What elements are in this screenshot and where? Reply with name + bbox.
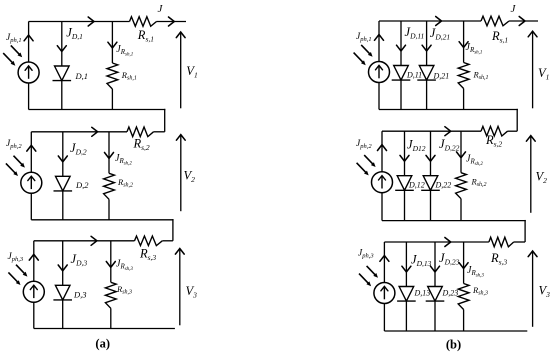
photon illumination arrows (a) cell 3 <box>8 265 27 285</box>
wire: (b) cell 2 left branch <box>381 131 383 172</box>
svg-text:Jph,2: Jph,2 <box>6 139 22 150</box>
wire: (b) cell 2 top rail <box>382 130 481 132</box>
resistor Rs,3 (a) series <box>135 236 163 246</box>
arrow: current JRsh,1 direction (a) <box>108 42 117 48</box>
svg-text:Jph,1: Jph,1 <box>356 32 372 43</box>
wire: (b) cell 1 bottom rail <box>379 109 518 111</box>
current source Jph,3 (a) <box>23 281 44 302</box>
resistor Rsh,1 (a) shunt <box>107 63 118 89</box>
voltage arrow V3 (a) <box>179 250 181 326</box>
current source Jph,1 (a) <box>18 62 39 83</box>
diode D,23 (b) <box>426 287 445 302</box>
svg-text:JD,2: JD,2 <box>70 141 87 157</box>
arrow: (b) cell 1 current direction on top rail <box>436 17 442 26</box>
svg-text:JD,23: JD,23 <box>439 251 460 267</box>
svg-text:D,1: D,1 <box>75 71 89 81</box>
photon illumination arrows (b) cell 2 <box>357 155 376 175</box>
wire: (b) cell 1 left branch <box>378 21 380 62</box>
wire: (a) cell 3 diode branch 1 <box>62 241 64 329</box>
svg-text:Rsh,1: Rsh,1 <box>121 70 137 82</box>
resistor Rs,1 (b) series <box>481 16 509 26</box>
photon illumination arrows (b) cell 3 <box>359 266 378 286</box>
wire: (b) cell 3 left branch <box>383 242 385 283</box>
photon illumination arrows (a) cell 2 <box>6 156 25 176</box>
svg-text:V3: V3 <box>186 284 198 300</box>
voltage arrow V3 (b) <box>532 252 534 327</box>
arrow: (a) cell 1 current direction on top rail <box>88 17 94 26</box>
arrow: current JD,12 direction (b) <box>400 155 409 161</box>
resistor Rs,1 (a) series <box>130 17 157 27</box>
arrowhead: (a) output current J <box>169 17 175 26</box>
svg-text:JRsh,2: JRsh,2 <box>466 154 483 168</box>
arrow: (b) photocurrent Jph,1 direction <box>375 35 384 41</box>
svg-text:Rsh,1: Rsh,1 <box>473 70 489 82</box>
svg-text:Rsh,2: Rsh,2 <box>117 177 133 189</box>
wire: (b) cell 2 shunt branch <box>460 131 462 173</box>
arrowhead: (b) output current J <box>519 17 525 26</box>
resistor Rsh,2 (a) shunt <box>104 173 115 199</box>
diode D,2 (a) <box>54 176 73 191</box>
wire: (a) cell 3 shunt branch <box>110 241 112 282</box>
wire: (b) cell 3 top rail <box>384 241 489 243</box>
svg-text:Rsh,3: Rsh,3 <box>116 284 132 296</box>
svg-text:Jph,1: Jph,1 <box>6 33 22 44</box>
svg-text:JRsh,3: JRsh,3 <box>467 265 484 279</box>
svg-text:Jph,3: Jph,3 <box>8 252 24 263</box>
svg-text:JD,13: JD,13 <box>411 253 432 269</box>
svg-text:JD,21: JD,21 <box>430 26 450 42</box>
svg-text:JD,11: JD,11 <box>405 25 425 41</box>
wire: (a) cell 2 diode branch 1 <box>62 132 64 220</box>
svg-text:Jph,2: Jph,2 <box>356 139 372 150</box>
wire: (b) cell 1 diode branch 2 <box>426 21 428 110</box>
arrow: (a) photocurrent Jph,1 direction <box>24 35 33 41</box>
current source Jph,2 (a) <box>21 172 42 193</box>
diode D,12 (b) <box>395 176 414 191</box>
arrow: current JRsh,2 direction (a) <box>105 153 114 159</box>
voltage arrow V2 (a) <box>180 136 182 212</box>
wire: (a) cell 1 diode branch 1 <box>61 22 63 110</box>
svg-text:Jph,3: Jph,3 <box>358 249 374 260</box>
arrow: (b) photocurrent Jph,3 direction <box>380 256 389 262</box>
voltage arrow V1 (b) <box>532 32 534 108</box>
svg-text:V3: V3 <box>539 284 550 300</box>
svg-text:D,13: D,13 <box>414 289 431 298</box>
arrow: current JD,11 direction (b) <box>397 45 406 51</box>
arrow: current JD,3 direction (a) <box>58 265 67 271</box>
svg-text:JRsh,3: JRsh,3 <box>116 259 133 273</box>
svg-text:V2: V2 <box>536 170 548 186</box>
arrow: current JD,23 direction (b) <box>431 266 440 272</box>
wire: (a) cell 2 top rail <box>31 131 127 133</box>
resistor Rs,3 (b) series <box>489 237 514 247</box>
wire: (a) cell 2 bottom rail <box>31 219 173 221</box>
svg-text:JD,22: JD,22 <box>439 137 460 153</box>
wire: (b) cell 1 shunt branch <box>463 21 465 63</box>
svg-text:(a): (a) <box>95 337 110 351</box>
arrow: current JD,21 direction (b) <box>422 45 431 51</box>
photon illumination arrows (a) cell 1 <box>3 45 22 65</box>
svg-text:D,23: D,23 <box>442 289 459 298</box>
svg-text:J: J <box>158 3 164 15</box>
arrow: current JRsh,3 direction (b) <box>459 263 468 269</box>
arrow: (b) photocurrent Jph,2 direction <box>378 145 387 151</box>
wire: (a) cell 1 shunt branch <box>111 22 113 64</box>
diode D,11 (b) <box>392 66 411 81</box>
diode D,3 (a) <box>53 285 72 300</box>
wire: (b) interconnect cell1-cell2 <box>516 109 518 131</box>
svg-text:Rs,2: Rs,2 <box>133 137 150 153</box>
svg-text:V2: V2 <box>184 169 196 185</box>
arrow: (a) cell 3 current direction on top rail <box>91 236 97 245</box>
svg-text:(b): (b) <box>446 338 461 352</box>
wire: (b) cell 2 bottom rail <box>382 220 526 222</box>
wire: (a) cell 2 shunt branch <box>108 132 110 174</box>
arrow: (a) photocurrent Jph,2 direction <box>27 145 36 151</box>
svg-text:JD,3: JD,3 <box>71 252 88 268</box>
resistor Rsh,3 (a) shunt <box>105 282 116 308</box>
svg-text:Rsh,3: Rsh,3 <box>472 285 488 297</box>
diode D,1 (a) <box>53 66 72 81</box>
arrow: current JD,1 direction (a) <box>57 46 66 52</box>
svg-text:D,21: D,21 <box>433 72 450 81</box>
current source Jph,3 (b) <box>374 283 395 304</box>
arrow: current JD,2 direction (a) <box>58 156 67 162</box>
svg-text:D,2: D,2 <box>75 180 89 190</box>
arrow: current JRsh,2 direction (b) <box>457 152 466 158</box>
wire: (b) cell 3 shunt branch <box>463 242 465 284</box>
wire: (a) cell 1 top rail <box>29 21 130 23</box>
svg-text:Rsh,2: Rsh,2 <box>471 177 487 189</box>
resistor Rsh,3 (b) shunt <box>458 284 469 310</box>
arrow: current JRsh,3 direction (a) <box>106 262 115 268</box>
resistor Rs,2 (b) series <box>481 126 508 136</box>
wire: (b) cell 1 diode branch 1 <box>400 21 402 110</box>
resistor Rsh,1 (b) shunt <box>458 63 469 89</box>
wire: (a) interconnect cell2-cell3 <box>172 219 174 241</box>
wire: (b) cell 2 diode branch 2 <box>430 131 432 220</box>
arrow: (b) cell 3 current direction on top rail <box>445 238 451 247</box>
wire: (b) cell 1 top rail <box>379 20 481 22</box>
svg-text:JRsh,1: JRsh,1 <box>116 44 133 58</box>
wire: (a) cell 1 left branch <box>28 22 30 63</box>
wire: (a) cell 3 top rail <box>34 240 135 242</box>
svg-text:Rs,3: Rs,3 <box>139 247 156 263</box>
resistor Rsh,2 (b) shunt <box>456 173 467 199</box>
wire: (a) cell 1 bottom rail <box>29 109 166 111</box>
photon illumination arrows (b) cell 1 <box>354 45 373 65</box>
svg-text:JD,1: JD,1 <box>66 25 83 41</box>
wire: (b) cell 3 bottom rail <box>384 330 527 332</box>
wire: (a) cell 2 left branch <box>30 132 32 173</box>
wire: (a) cell 3 bottom rail <box>34 328 175 330</box>
svg-text:V1: V1 <box>538 66 549 82</box>
voltage arrow V2 (b) <box>530 137 532 213</box>
svg-text:V1: V1 <box>186 64 197 80</box>
svg-text:D,12: D,12 <box>408 181 425 190</box>
wire: (b) cell 2 diode branch 1 <box>404 131 406 220</box>
svg-text:Rs,3: Rs,3 <box>490 251 507 267</box>
wire: (a) cell 3 left branch <box>33 241 35 281</box>
arrow: current JD,22 direction (b) <box>426 155 435 161</box>
svg-text:D,22: D,22 <box>435 181 452 190</box>
svg-text:J: J <box>511 3 517 15</box>
diode D,21 (b) <box>417 66 436 81</box>
resistor Rs,2 (a) series <box>127 127 154 137</box>
svg-text:D,3: D,3 <box>73 290 87 300</box>
arrow: current JD,13 direction (b) <box>402 266 411 272</box>
wire: (b) cell 3 diode branch 2 <box>434 242 436 331</box>
arrow: current JRsh,1 direction (b) <box>459 42 468 48</box>
diode D,22 (b) <box>421 176 440 191</box>
svg-text:JD12: JD12 <box>407 138 426 154</box>
svg-text:Rs,1: Rs,1 <box>137 28 154 44</box>
wire: (a) interconnect cell1-cell2 <box>164 109 166 132</box>
current source Jph,1 (b) <box>369 62 390 83</box>
wire: (b) interconnect cell2-cell3 <box>524 220 526 242</box>
svg-text:JRsh,2: JRsh,2 <box>115 153 132 167</box>
svg-text:Rs,1: Rs,1 <box>491 29 508 45</box>
arrow: (a) cell 2 current direction on top rail <box>92 127 98 136</box>
arrow: (a) photocurrent Jph,3 direction <box>29 254 38 260</box>
current source Jph,2 (b) <box>372 172 393 193</box>
svg-text:D,11: D,11 <box>406 71 422 80</box>
svg-text:JRsh,1: JRsh,1 <box>466 42 483 56</box>
diode D,13 (b) <box>397 287 416 302</box>
wire: (b) cell 3 diode branch 1 <box>405 242 407 331</box>
voltage arrow V1 (a) <box>180 33 182 108</box>
arrow: (b) cell 2 current direction on top rail <box>445 127 451 136</box>
